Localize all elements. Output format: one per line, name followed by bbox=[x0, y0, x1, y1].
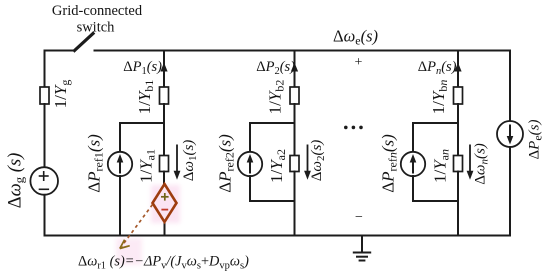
svg-text:1/Yg: 1/Yg bbox=[51, 80, 72, 109]
pink highlight behind dependent source bbox=[151, 185, 180, 223]
wire branchn loop bottom horizontal bbox=[413, 200, 458, 202]
arrowhead current ΔP2(s) bbox=[291, 63, 298, 72]
resistor 1/Yb2 bbox=[290, 87, 299, 104]
svg-text:1/Ya2: 1/Ya2 bbox=[267, 149, 288, 183]
current source circle ΔPrefn(s) bbox=[401, 152, 425, 176]
diamond plus sign bbox=[161, 193, 169, 201]
ground stem bbox=[361, 236, 363, 253]
svg-text:switch: switch bbox=[77, 20, 116, 36]
wire branch1 sub upper bbox=[119, 123, 121, 152]
arrow inside source ΔPe (down) bbox=[507, 125, 514, 145]
current source circle ΔPref2(s) bbox=[238, 152, 262, 176]
wire branch2 sub upper bbox=[249, 123, 251, 152]
wire branchn sub lower bbox=[412, 176, 414, 201]
svg-text:1/Yan: 1/Yan bbox=[431, 149, 452, 183]
wire branchn main middle bbox=[457, 104, 459, 156]
wire branch1 main top bbox=[163, 51, 165, 88]
wire branchn sub upper bbox=[412, 123, 414, 152]
resistor 1/Yb1 bbox=[160, 87, 169, 104]
wire branch1 sub lower bbox=[119, 176, 121, 236]
ground bar long bbox=[354, 252, 370, 254]
svg-text:1/Ybn: 1/Ybn bbox=[429, 80, 450, 115]
annotation open arrowhead bbox=[120, 240, 130, 249]
svg-text:1/Yb2: 1/Yb2 bbox=[266, 80, 287, 115]
resistor 1/Ya2 bbox=[290, 156, 299, 172]
wire branch1 junction horizontal bbox=[120, 122, 164, 124]
diamond minus sign bbox=[161, 209, 168, 211]
svg-text:ΔP2(s): ΔP2(s) bbox=[256, 59, 295, 77]
arrow inside source ΔPrefn bbox=[410, 154, 417, 174]
wire left branch middle bbox=[44, 104, 46, 167]
ground bar middle bbox=[357, 256, 367, 258]
svg-text:Δω2(s): Δω2(s) bbox=[309, 140, 327, 182]
svg-text:1/Ya1: 1/Ya1 bbox=[137, 149, 158, 183]
voltage source circle Δωg(s) bbox=[30, 167, 58, 195]
arrow Δωn(s) down bbox=[467, 145, 474, 180]
arrowhead current ΔPn(s) bbox=[454, 63, 461, 72]
wire right branch lower bbox=[509, 147, 511, 236]
svg-text:Δωn(s): Δωn(s) bbox=[473, 143, 491, 185]
wire right branch upper bbox=[509, 51, 511, 122]
svg-text:ΔPref2(s): ΔPref2(s) bbox=[216, 134, 237, 193]
svg-text:Δωe(s): Δωe(s) bbox=[333, 27, 378, 48]
wire branch1 diamond to bus bbox=[164, 222, 166, 236]
label Grid-connected switch bbox=[52, 3, 143, 36]
wire branchn main lower bbox=[457, 172, 459, 236]
svg-text:+: + bbox=[355, 55, 363, 70]
svg-text:ΔPrefn(s): ΔPrefn(s) bbox=[379, 134, 400, 193]
voltage source plus sign bbox=[40, 172, 48, 180]
wire branch2 main top bbox=[294, 51, 296, 88]
current source circle ΔPref1(s) bbox=[108, 152, 132, 176]
svg-text:ΔPe(s): ΔPe(s) bbox=[527, 120, 545, 160]
wire branch1 main middle bbox=[163, 104, 165, 156]
arrow Δω1(s) down bbox=[174, 145, 181, 180]
svg-text:−: − bbox=[355, 210, 363, 225]
ellipsis dots between branch 2 and branch n bbox=[344, 126, 363, 130]
ground bar short bbox=[360, 260, 365, 262]
wire left branch upper bbox=[44, 51, 46, 88]
resistor 1/Yan bbox=[454, 156, 463, 172]
resistor 1/Ya1 bbox=[160, 156, 169, 172]
wire branch2 loop bottom horizontal bbox=[250, 200, 295, 202]
wire branch2 main lower bbox=[294, 172, 296, 236]
svg-text:Δωg (s): Δωg (s) bbox=[6, 153, 27, 209]
wire left branch lower bbox=[44, 195, 46, 236]
wire branch2 main middle bbox=[294, 104, 296, 156]
wire branch2 sub lower bbox=[249, 176, 251, 201]
svg-text:Δωr1 (s)=−ΔPv/(Jvωs+Dvpωs): Δωr1 (s)=−ΔPv/(Jvωs+Dvpωs) bbox=[78, 254, 249, 272]
arrow inside source ΔPref1 bbox=[117, 154, 124, 174]
svg-text:1/Yb1: 1/Yb1 bbox=[135, 80, 156, 115]
pink highlight near annotation arrow target bbox=[116, 238, 142, 265]
dependent source diamond Δωr1 bbox=[153, 184, 177, 222]
dashed annotation arrow bbox=[122, 205, 153, 247]
wire top bus right segment bbox=[95, 50, 511, 52]
wire branch2 junction horizontal bbox=[250, 122, 295, 124]
wire branchn junction horizontal bbox=[413, 122, 458, 124]
wire top bus left segment bbox=[45, 50, 76, 52]
current source circle ΔPe(s) bbox=[497, 121, 523, 147]
svg-text:ΔP1(s): ΔP1(s) bbox=[123, 59, 162, 77]
svg-text:Grid-connected: Grid-connected bbox=[52, 3, 143, 19]
wire branch1 below resistor bbox=[163, 172, 165, 185]
grid-connected switch blade S1 bbox=[75, 34, 94, 51]
arrowhead current ΔP1(s) bbox=[160, 63, 167, 72]
arrow inside source ΔPref2 bbox=[247, 154, 254, 174]
resistor 1/Yg bbox=[40, 87, 49, 104]
wire branchn main top bbox=[457, 51, 459, 88]
svg-text:Δω1(s): Δω1(s) bbox=[181, 140, 199, 182]
voltage source minus sign bbox=[40, 188, 49, 190]
arrow Δω2(s) down bbox=[304, 145, 311, 180]
resistor 1/Ybn bbox=[454, 87, 463, 104]
wire bottom bus bbox=[45, 235, 511, 237]
svg-text:ΔPref1(s): ΔPref1(s) bbox=[85, 134, 106, 193]
svg-text:ΔPn(s): ΔPn(s) bbox=[418, 59, 457, 77]
